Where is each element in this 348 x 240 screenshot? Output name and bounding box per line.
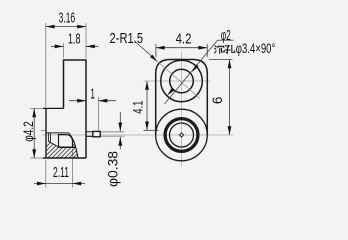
- svg-text:1.8: 1.8: [68, 31, 81, 48]
- svg-text:φ2: φ2: [221, 27, 231, 44]
- svg-text:4.1: 4.1: [130, 100, 146, 113]
- svg-text:3.16: 3.16: [59, 9, 76, 26]
- svg-text:φ4.2: φ4.2: [20, 121, 36, 142]
- svg-text:1: 1: [90, 86, 95, 103]
- svg-text:φ3.4×90°: φ3.4×90°: [236, 41, 275, 56]
- svg-text:6: 6: [210, 97, 225, 105]
- svg-text:4.2: 4.2: [176, 31, 192, 48]
- svg-text:2.11: 2.11: [53, 164, 69, 181]
- svg-text:2-R1.5: 2-R1.5: [110, 30, 144, 47]
- svg-text:φ0.38: φ0.38: [105, 151, 121, 187]
